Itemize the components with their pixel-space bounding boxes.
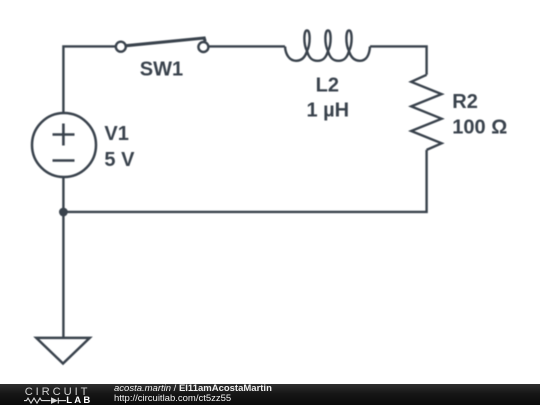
wire V1 bottom to ground [62, 177, 64, 338]
svg-text:1 µH: 1 µH [306, 100, 349, 122]
V1 plus sign [53, 124, 75, 161]
wire resistor to bottom corner [63, 150, 426, 212]
wire top-left vertical [63, 46, 115, 113]
V1 minus sign [53, 159, 75, 162]
voltage source V1 circle [32, 113, 96, 177]
svg-text:100 Ω: 100 Ω [452, 117, 507, 139]
svg-text:SW1: SW1 [140, 59, 183, 81]
resistor R2 zigzag [411, 75, 441, 150]
wire switch to inductor [208, 45, 285, 47]
inductor L2 [285, 30, 370, 60]
wire inductor to resistor corner [370, 46, 427, 74]
logo resistor-diode glyph [24, 398, 66, 404]
footer bar [0, 384, 540, 405]
junction node [59, 208, 68, 217]
footer attribution text [114, 384, 534, 405]
svg-text:V1: V1 [104, 123, 128, 145]
svg-text:L2: L2 [316, 75, 339, 97]
ground symbol [36, 338, 89, 364]
svg-text:R2: R2 [452, 91, 478, 113]
svg-text:5 V: 5 V [104, 149, 135, 171]
switch SW1 [116, 38, 209, 52]
